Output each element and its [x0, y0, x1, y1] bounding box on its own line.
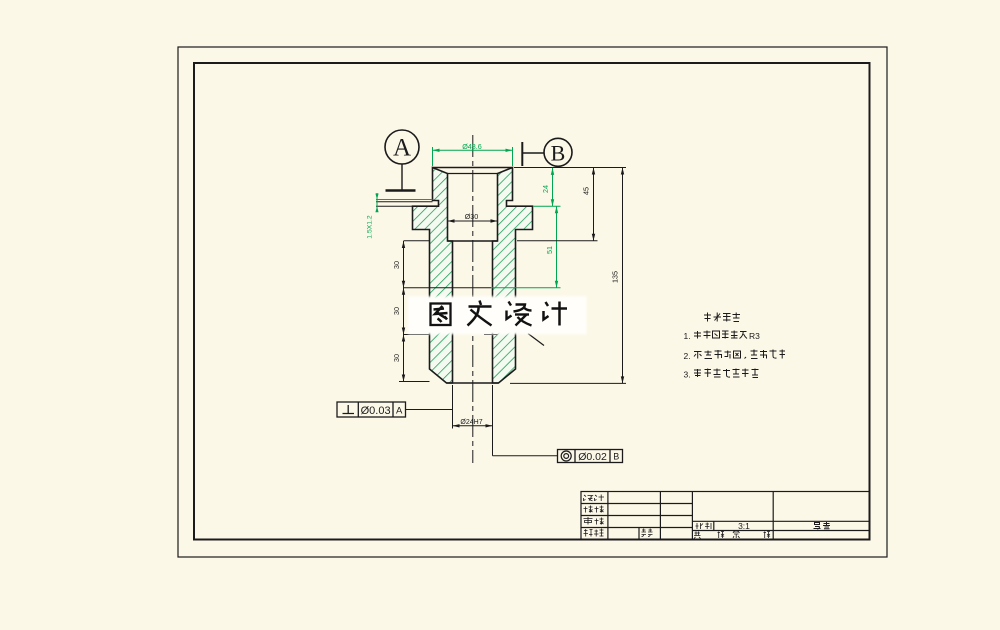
dim 135 bottom extension	[510, 382, 626, 384]
svg-text:51: 51	[545, 246, 554, 254]
label gong zhang di zhang	[694, 531, 770, 539]
svg-text:Ø0.03: Ø0.03	[361, 405, 391, 417]
svg-text:30: 30	[392, 307, 401, 315]
svg-text:B: B	[613, 452, 619, 462]
dim 30s dimension line	[403, 241, 405, 382]
label jiaohe	[584, 506, 604, 513]
stray leader diagonal	[528, 334, 544, 346]
svg-text:B: B	[551, 141, 566, 166]
bottom face line	[447, 382, 499, 384]
svg-text:Ø48.6: Ø48.6	[462, 142, 482, 151]
part outline right half	[493, 168, 533, 384]
flange top extension green	[534, 205, 561, 207]
svg-text:A: A	[396, 406, 403, 417]
svg-text:3.: 3.	[684, 370, 691, 380]
svg-text:Ø0.02: Ø0.02	[578, 451, 607, 463]
top face line	[433, 167, 513, 169]
fcf2 leader	[493, 455, 558, 457]
svg-text:30: 30	[392, 261, 401, 269]
svg-text:Ø24H7: Ø24H7	[460, 419, 482, 426]
watermark char ji	[544, 302, 568, 326]
concentricity symbol	[561, 451, 571, 461]
fcf frame perpendicularity	[337, 402, 406, 417]
label shenhe	[584, 517, 604, 525]
dim 51 line (green)	[556, 206, 558, 288]
section hatching left	[413, 168, 453, 384]
dim 48.6 extension lines (green)	[432, 147, 434, 166]
label xuehao	[642, 529, 653, 537]
svg-text:135: 135	[610, 271, 619, 283]
svg-text:3:1: 3:1	[738, 521, 750, 531]
watermark char tu	[431, 304, 451, 326]
internal feature line y334	[404, 334, 430, 336]
dim 48.6 line	[433, 149, 513, 151]
centerline	[472, 135, 474, 463]
bore chamfer bottom line	[448, 173, 498, 175]
internal feature line y288	[404, 287, 492, 289]
watermark char wen	[468, 301, 492, 326]
label bili	[696, 523, 712, 530]
datum A circle	[385, 130, 419, 164]
datum A stem	[401, 164, 403, 190]
groove extension lines left	[376, 199, 433, 201]
dim 45 extension at y240.8	[517, 240, 598, 242]
part name daotao	[814, 522, 831, 529]
datum B leader	[522, 152, 544, 154]
datum B circle	[544, 138, 572, 166]
fcf1 leader	[406, 409, 453, 411]
svg-text:A: A	[393, 135, 411, 162]
bore 30 bottom line	[448, 240, 498, 242]
dim 135 line	[622, 168, 624, 384]
part outline left half	[413, 168, 453, 384]
svg-text:1.: 1.	[684, 331, 691, 341]
top face extension line right	[514, 167, 626, 169]
watermark band	[408, 296, 587, 334]
dim 30s boundary arrows	[402, 241, 405, 248]
svg-text:R3: R3	[749, 331, 760, 341]
dim 24 line (green)	[552, 168, 554, 206]
datum B base bar	[521, 142, 523, 166]
dim 45 line	[593, 168, 595, 241]
svg-text:2.: 2.	[684, 351, 691, 361]
svg-text:30: 30	[392, 354, 401, 362]
svg-text:1.5X1.2: 1.5X1.2	[367, 215, 374, 239]
dim phi30 line	[448, 220, 498, 222]
fcf frame concentricity	[558, 450, 623, 463]
dim 30s bottom extension	[399, 381, 430, 383]
dim phi24H7 line	[453, 425, 493, 427]
dim 51 extension green y288	[491, 287, 561, 289]
svg-text:24: 24	[541, 185, 550, 193]
tech req title	[704, 313, 740, 322]
title block grid	[581, 492, 870, 540]
perpendicularity symbol	[343, 405, 355, 414]
dim phi24H7 extension lines	[452, 385, 454, 429]
outer border frame	[178, 47, 887, 557]
dim 1.5x1.2 line (green)	[376, 193, 378, 212]
svg-text:Ø30: Ø30	[465, 212, 479, 221]
inner border frame	[194, 63, 870, 540]
datum A base bar	[386, 189, 416, 191]
svg-text:45: 45	[581, 187, 590, 195]
section hatching right	[493, 168, 533, 384]
label sheji	[584, 495, 605, 502]
label banji	[584, 529, 604, 537]
watermark char she	[507, 302, 532, 326]
